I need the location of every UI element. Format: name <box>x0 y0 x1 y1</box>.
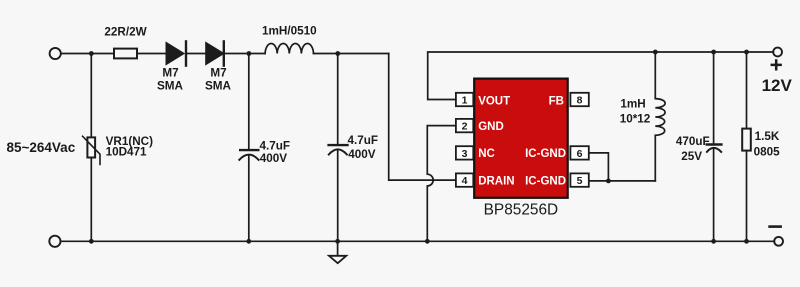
wire: C2 to bottom rail <box>337 150 339 242</box>
svg-text:10*12: 10*12 <box>620 113 651 126</box>
inductor L2 <box>655 99 665 136</box>
svg-text:2: 2 <box>462 121 468 133</box>
wire: top rail to varistor VR1 <box>90 54 92 138</box>
svg-text:FB: FB <box>549 95 564 107</box>
wire: L2 bottom branch <box>654 135 656 181</box>
svg-text:85~264Vac: 85~264Vac <box>7 140 76 155</box>
node: L2 top junction <box>653 50 658 55</box>
wire: D2 to L1 <box>225 53 265 55</box>
svg-text:4.7uF: 4.7uF <box>260 140 291 153</box>
pin 8 (FB) <box>570 93 588 107</box>
wire: L2 top branch <box>654 52 656 99</box>
wire: D1 to D2 <box>187 53 205 55</box>
wire: R2 top branch <box>746 52 748 129</box>
svg-text:3: 3 <box>462 148 468 160</box>
inductor L1 <box>265 44 313 54</box>
svg-text:GND: GND <box>478 121 504 133</box>
svg-text:1: 1 <box>462 95 468 107</box>
svg-text:400V: 400V <box>348 148 376 161</box>
wire: VOUT pin 1 up and right to +12V rail <box>428 52 774 100</box>
node: pin5/pin6 junction <box>606 179 611 184</box>
svg-text:4: 4 <box>462 175 468 187</box>
node: C3 top junction <box>711 50 716 55</box>
resistor R2 <box>742 129 751 151</box>
svg-text:5: 5 <box>577 175 583 187</box>
node: R2 bottom junction <box>744 239 749 244</box>
IC U1 BP85256D body <box>474 79 568 198</box>
plus sign <box>772 61 781 70</box>
wire: R2 to bottom rail <box>746 151 748 242</box>
node: C2/ground junction <box>335 239 340 244</box>
pin 1 (VOUT) <box>456 93 473 107</box>
node: C1 bottom junction <box>246 239 251 244</box>
svg-text:1mH: 1mH <box>620 98 645 111</box>
wire: GND pin 2 to bottom rail with hop over drain wire <box>427 126 456 242</box>
svg-text:470uF: 470uF <box>676 135 710 148</box>
output terminal minus <box>774 237 783 246</box>
pin 4 (DRAIN) <box>456 173 473 187</box>
node: C1 top junction <box>247 51 252 56</box>
wire: bottom rail <box>61 240 775 242</box>
wire: L1 to drain-drop corner <box>314 53 389 55</box>
wire: C1 branch top <box>248 54 250 150</box>
svg-text:400V: 400V <box>260 152 288 165</box>
wire: pin 5 to L2 bottom <box>589 180 656 182</box>
svg-text:1.5K: 1.5K <box>755 130 780 143</box>
svg-text:22R/2W: 22R/2W <box>104 26 147 39</box>
svg-text:IC-GND: IC-GND <box>525 148 566 160</box>
node: IC GND bottom junction <box>425 239 430 244</box>
capacitor C1 <box>239 150 258 160</box>
capacitor C2 <box>329 145 348 154</box>
svg-text:10D471: 10D471 <box>106 146 147 159</box>
pin 3 (NC) <box>456 146 473 160</box>
wire: C1 to bottom rail <box>248 155 250 241</box>
pin 2 (GND) <box>456 119 473 133</box>
wire: pin 6 to pin5 node <box>589 153 609 181</box>
node: varistor top junction <box>89 51 94 56</box>
pin 6 (IC-GND) <box>570 146 588 160</box>
wire: C3 to bottom rail <box>713 149 715 241</box>
wire: C3 top branch <box>713 52 715 144</box>
varistor VR1 <box>83 136 100 164</box>
svg-text:NC: NC <box>478 148 495 160</box>
diode D2 <box>205 41 225 65</box>
svg-text:IC-GND: IC-GND <box>525 175 566 187</box>
svg-text:0805: 0805 <box>754 145 781 158</box>
svg-text:4.7uF: 4.7uF <box>348 134 379 147</box>
svg-text:M7: M7 <box>162 67 178 80</box>
wire: input terminal to resistor R1 <box>61 53 114 55</box>
diode D1 <box>166 41 187 65</box>
svg-text:VOUT: VOUT <box>478 95 510 107</box>
wire: drain drop vertical and horizontal to pin 4 <box>389 54 456 181</box>
input terminal bottom-left <box>49 236 60 247</box>
output terminal plus <box>773 48 782 57</box>
svg-text:M7: M7 <box>210 67 226 80</box>
resistor R1 <box>114 49 137 59</box>
svg-text:DRAIN: DRAIN <box>478 175 514 187</box>
ground <box>329 241 346 263</box>
svg-text:12V: 12V <box>762 76 793 95</box>
node: R2 top junction <box>744 50 749 55</box>
svg-text:SMA: SMA <box>205 80 232 93</box>
node: varistor bottom junction <box>89 239 94 244</box>
node: C2 top junction <box>335 51 340 56</box>
wire: C2 branch top <box>337 54 339 145</box>
input terminal top-left <box>50 48 61 59</box>
wire: VR1 to bottom rail <box>90 158 92 242</box>
capacitor C3 <box>707 145 722 152</box>
node: C3 bottom junction <box>711 239 716 244</box>
svg-text:BP85256D: BP85256D <box>484 202 558 219</box>
svg-text:6: 6 <box>577 148 583 160</box>
svg-text:1mH/0510: 1mH/0510 <box>262 24 317 37</box>
minus sign <box>770 225 781 228</box>
wire: R1 to D1 <box>137 53 166 55</box>
pin 5 (IC-GND) <box>570 173 588 187</box>
svg-text:8: 8 <box>577 95 583 107</box>
svg-text:SMA: SMA <box>157 80 184 93</box>
svg-text:25V: 25V <box>681 150 702 163</box>
